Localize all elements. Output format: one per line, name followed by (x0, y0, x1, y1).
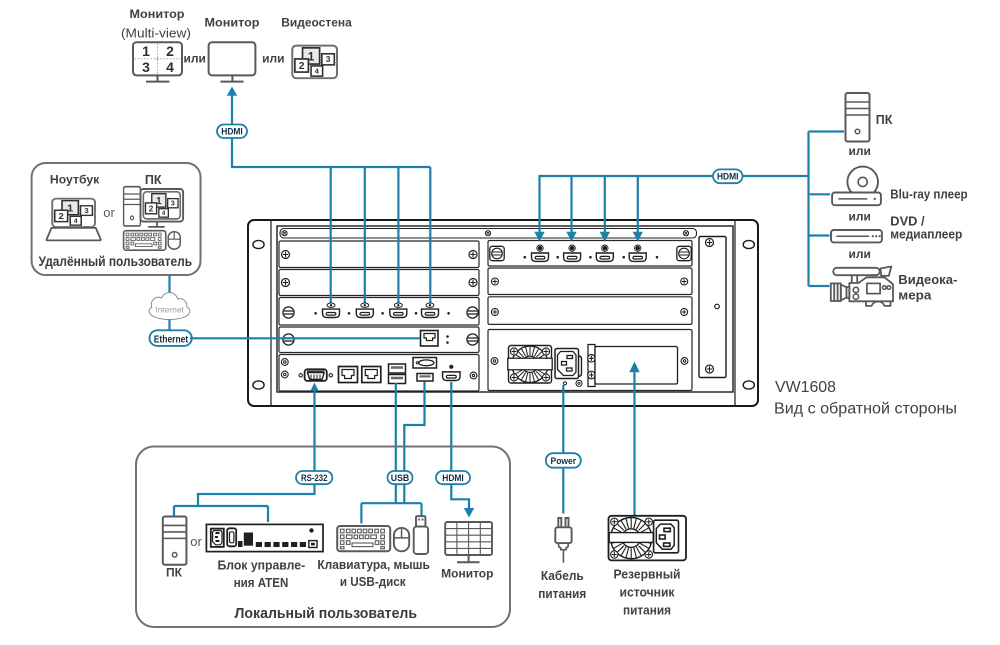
HDMI out port 1 (323, 303, 340, 317)
flat connector with oval (413, 358, 437, 369)
monitor M2 (209, 42, 256, 81)
svg-text:Монитор: Монитор (205, 15, 260, 29)
left row5: corner screws (281, 359, 288, 366)
video camera icon (831, 267, 893, 306)
IEC inlet in device (555, 349, 582, 387)
label: Клавиатура, мышь и USB-диск (317, 558, 430, 589)
ear oval holes (253, 240, 755, 389)
strip screws (282, 231, 287, 236)
monitor M1 multi-view (133, 42, 182, 81)
label: Монитор (Multi-view) (121, 7, 191, 40)
local mouse (394, 528, 409, 551)
power cable plug icon (555, 518, 571, 563)
wire: HDMI out bus (232, 138, 430, 303)
wire: ethernet horizontal (190, 337, 420, 339)
badge Ethernet (150, 330, 192, 346)
svg-text:Кабель: Кабель (541, 569, 584, 583)
label: Блок управления ATEN (217, 558, 305, 590)
badge Power (546, 453, 581, 468)
right row1 big screws (490, 246, 504, 260)
svg-text:ПК: ПК (145, 173, 162, 187)
right row2 screws (491, 278, 498, 285)
HDMI local out port (443, 365, 461, 381)
DEVICE chassis (248, 220, 758, 406)
svg-text:Видеостена: Видеостена (281, 15, 352, 29)
RJ45 jack 1 (339, 367, 358, 383)
top strip (280, 229, 697, 239)
HDMI in port 3 (596, 245, 613, 261)
PSU fan module (508, 346, 552, 384)
local PC tower (163, 517, 187, 565)
wire: arrow up to monitor M2 (227, 87, 237, 126)
wire: cloud to ethernet badge (168, 320, 170, 332)
dots between out ports (314, 312, 450, 315)
svg-text:3: 3 (142, 59, 150, 75)
video wall icon (292, 46, 337, 79)
svg-text:VW1608: VW1608 (775, 379, 836, 396)
wire: source trunk and stubs (809, 132, 845, 287)
left row2 screws (282, 279, 290, 287)
source PC tower (846, 93, 870, 142)
svg-text:мера: мера (898, 289, 932, 303)
wire: RS-232 (174, 391, 315, 522)
label: Кабель питания (538, 569, 586, 601)
label: VW1608 (774, 379, 957, 418)
svg-text:or: or (103, 205, 115, 220)
arrows into HDMI in ports (534, 232, 643, 242)
blu-ray player icon (832, 167, 881, 206)
svg-text:ния ATEN: ния ATEN (234, 576, 289, 590)
PC tower icon (124, 187, 141, 226)
left row3 HDMI out: screws (283, 307, 294, 318)
svg-text:1: 1 (142, 43, 150, 59)
svg-text:Ноутбук: Ноутбук (50, 172, 100, 186)
svg-text:RS-232: RS-232 (301, 473, 328, 483)
backup PSU icon (609, 516, 687, 561)
svg-text:или: или (849, 210, 871, 224)
HDMI in port 1 (532, 245, 549, 261)
power area corner screws (491, 358, 498, 365)
svg-text:HDMI: HDMI (442, 473, 464, 483)
HDMI in port 2 (564, 245, 581, 261)
svg-text:Монитор: Монитор (441, 567, 493, 581)
label: Видеока-мера (898, 273, 957, 303)
local keyboard (337, 526, 390, 551)
svg-text:Power: Power (551, 456, 577, 466)
wire: box to cloud (168, 275, 170, 293)
wire: HDMI in bus (540, 176, 809, 240)
svg-text:(Multi-view): (Multi-view) (121, 25, 191, 40)
wire: backup PSU with up arrow (633, 372, 635, 515)
badge HDMI bottom (436, 471, 470, 484)
local user box (136, 447, 510, 628)
inner back panel (277, 226, 733, 392)
svg-text:Резервный: Резервный (614, 568, 681, 582)
svg-text:Локальный пользователь: Локальный пользователь (235, 606, 418, 622)
USB stick (414, 516, 428, 554)
svg-text:HDMI: HDMI (221, 126, 243, 136)
left row1 screws (282, 251, 290, 259)
DB9 serial connector (299, 369, 332, 381)
PC monitor icon (141, 189, 184, 227)
svg-text:или: или (849, 247, 871, 261)
svg-text:Монитор: Монитор (130, 7, 185, 21)
svg-text:Вид с обратной стороны: Вид с обратной стороны (774, 401, 957, 418)
svg-text:Blu-ray плеер: Blu-ray плеер (890, 188, 968, 202)
label: Резервный источник питания (614, 568, 681, 618)
svg-text:питания: питания (623, 604, 671, 618)
left row4 Ethernet: screws (283, 334, 294, 345)
svg-text:медиаплеер: медиаплеер (890, 227, 962, 241)
svg-text:и USB-диск: и USB-диск (340, 575, 406, 589)
badge USB (388, 471, 413, 484)
USB stack (389, 364, 406, 384)
keyboard icon small (124, 231, 166, 250)
ATEN control unit (206, 524, 323, 551)
mouse icon small (168, 232, 180, 249)
laptop icon (47, 199, 101, 241)
backup PSU empty slot (588, 345, 678, 387)
HDMI out port 2 (356, 303, 373, 317)
svg-text:Удалённый пользователь: Удалённый пользователь (39, 253, 193, 269)
RJ45 jack 2 (362, 367, 381, 383)
right column rows (488, 241, 692, 391)
svg-text:ПК: ПК (166, 566, 183, 580)
svg-text:4: 4 (166, 59, 174, 75)
svg-text:Видеока-: Видеока- (898, 273, 957, 287)
single USB port (417, 374, 433, 382)
badge RS-232 (296, 471, 332, 484)
svg-text:или: или (184, 51, 206, 65)
HDMI in port 4 (629, 245, 646, 261)
wire: power cable (562, 385, 564, 514)
badge HDMI right (713, 169, 743, 183)
svg-text:или: или (262, 51, 284, 65)
remote user box (32, 163, 201, 275)
svg-text:Клавиатура, мышь: Клавиатура, мышь (317, 558, 430, 572)
right row3 screws (491, 308, 498, 315)
svg-text:ПК: ПК (876, 113, 893, 127)
internet cloud (150, 293, 190, 319)
svg-text:or: or (190, 534, 202, 549)
wire: USB pair (361, 382, 424, 524)
svg-text:питания: питания (538, 587, 586, 601)
RJ45 LAN port (421, 331, 439, 347)
HDMI out port 4 (422, 303, 439, 317)
DVD player icon (831, 230, 882, 242)
svg-text:Блок управле-: Блок управле- (217, 558, 305, 572)
left column rows (279, 241, 479, 391)
badge HDMI top (217, 125, 247, 139)
narrow side panel (699, 237, 726, 378)
svg-text:источник: источник (620, 586, 676, 600)
HDMI out port 3 (390, 303, 407, 317)
svg-text:2: 2 (166, 43, 174, 59)
label: DVD / медиаплеер (890, 215, 962, 242)
dots between in ports (524, 256, 659, 259)
svg-text:USB: USB (391, 473, 410, 483)
svg-text:или: или (849, 144, 871, 158)
wire: HDMI to monitor (451, 382, 469, 510)
local monitor grid (445, 522, 492, 562)
svg-text:Ethernet: Ethernet (154, 333, 189, 345)
arrow into DB9 (310, 383, 318, 392)
svg-text:HDMI: HDMI (717, 172, 739, 182)
svg-text:Internet: Internet (155, 305, 184, 315)
dots near RJ45 (446, 335, 449, 344)
